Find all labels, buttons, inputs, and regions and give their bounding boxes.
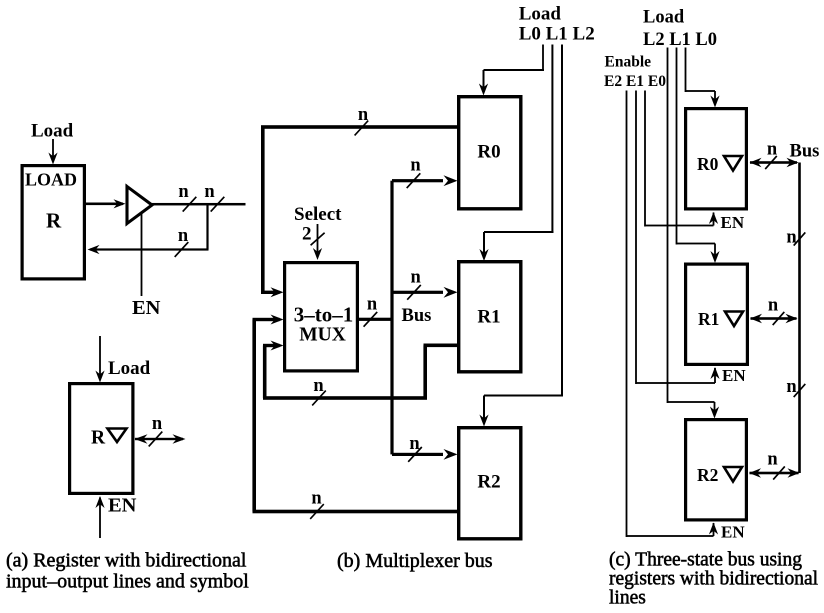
svg-text:n: n: [411, 268, 422, 288]
svg-text:Load: Load: [108, 358, 151, 379]
svg-text:n: n: [204, 182, 215, 202]
svg-text:(c) Three-state bus using: (c) Three-state bus using: [609, 550, 802, 571]
svg-text:(b) Multiplexer bus: (b) Multiplexer bus: [337, 550, 493, 572]
svg-text:n: n: [178, 226, 189, 246]
svg-text:n: n: [768, 296, 779, 316]
svg-text:R: R: [91, 428, 106, 449]
svg-text:Bus: Bus: [402, 306, 432, 326]
svg-text:n: n: [786, 377, 797, 397]
svg-text:L2 L1 L0: L2 L1 L0: [643, 30, 717, 50]
svg-text:EN: EN: [721, 213, 745, 232]
svg-text:lines: lines: [609, 588, 646, 609]
svg-text:L0 L1 L2: L0 L1 L2: [519, 24, 595, 45]
svg-text:n: n: [311, 489, 322, 509]
svg-text:Load: Load: [643, 8, 685, 28]
svg-text:registers with bidirectional: registers with bidirectional: [609, 569, 819, 590]
svg-text:n: n: [767, 450, 778, 470]
svg-text:Enable: Enable: [605, 54, 652, 71]
svg-text:n: n: [410, 156, 421, 176]
svg-text:n: n: [313, 376, 324, 396]
svg-text:R: R: [46, 209, 62, 233]
svg-text:input–output lines and symbol: input–output lines and symbol: [6, 571, 249, 593]
svg-text:R2: R2: [477, 472, 500, 493]
svg-text:n: n: [358, 105, 369, 125]
svg-text:EN: EN: [721, 523, 745, 542]
svg-text:n: n: [409, 434, 420, 454]
svg-text:LOAD: LOAD: [25, 170, 77, 190]
svg-text:R0: R0: [697, 154, 719, 174]
svg-text:(a) Register with bidirectiona: (a) Register with bidirectional: [6, 550, 247, 572]
svg-text:Bus: Bus: [790, 142, 820, 162]
svg-text:Select: Select: [294, 204, 342, 225]
svg-text:R1: R1: [698, 309, 719, 329]
svg-text:R1: R1: [477, 307, 500, 328]
svg-text:n: n: [152, 414, 163, 434]
svg-text:n: n: [367, 295, 378, 315]
svg-text:n: n: [786, 228, 797, 248]
svg-text:R0: R0: [477, 142, 500, 163]
svg-text:n: n: [178, 182, 189, 202]
svg-text:2: 2: [302, 224, 312, 245]
svg-text:EN: EN: [722, 366, 746, 385]
svg-text:EN: EN: [108, 495, 137, 517]
svg-text:E2 E1 E0: E2 E1 E0: [604, 73, 666, 90]
svg-text:Load: Load: [519, 4, 562, 25]
svg-text:MUX: MUX: [299, 325, 346, 346]
svg-text:R2: R2: [697, 465, 718, 485]
svg-text:3–to–1: 3–to–1: [294, 303, 354, 327]
svg-text:n: n: [767, 140, 778, 160]
svg-text:Load: Load: [31, 121, 74, 142]
svg-text:EN: EN: [132, 297, 161, 319]
